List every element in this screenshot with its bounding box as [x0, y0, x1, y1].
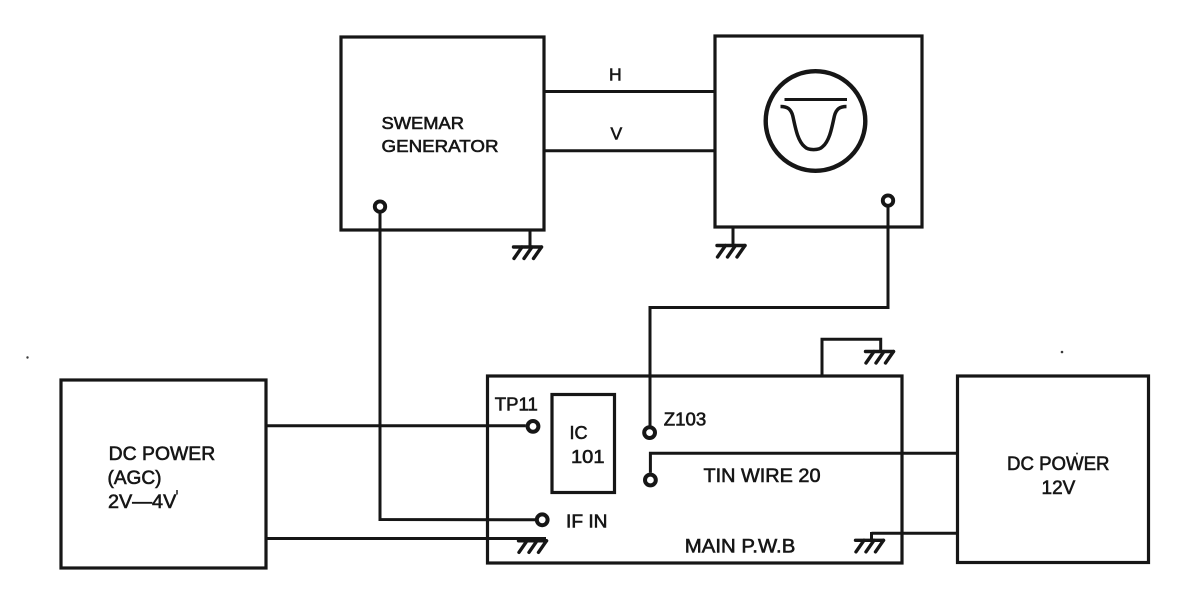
wire AGC to ground in MAIN PWB	[266, 537, 546, 540]
svg-text:(AGC): (AGC)	[108, 468, 162, 489]
terminal on SWEMAR GENERATOR	[375, 201, 385, 230]
ground under oscilloscope	[717, 227, 745, 257]
oscilloscope screen circle	[766, 71, 866, 171]
ground symbol bottom right of MAIN PWB	[856, 540, 884, 552]
box: SWEMAR GENERATOR	[341, 37, 544, 230]
ground under SWEMAR GENERATOR	[514, 230, 542, 259]
label DC POWER 12V	[1007, 454, 1110, 499]
box: DC POWER 12V	[958, 376, 1149, 563]
box: oscilloscope	[715, 36, 922, 227]
wire from oscilloscope terminal to Z103	[650, 227, 888, 426]
node TP11	[528, 421, 539, 432]
box: DC POWER (AGC)	[61, 380, 266, 568]
ground bracket on top of MAIN PWB	[822, 339, 881, 375]
svg-text:H: H	[609, 65, 622, 85]
svg-text:TIN WIRE 20: TIN WIRE 20	[704, 466, 821, 487]
label SWEMAR GENERATOR	[382, 113, 499, 156]
terminal on oscilloscope	[883, 195, 893, 227]
svg-text:Z103: Z103	[664, 409, 707, 429]
node IF IN	[537, 514, 548, 525]
svg-text:2V—4V: 2V—4V	[108, 492, 177, 513]
svg-text:TP11: TP11	[495, 394, 538, 414]
svg-text:IC: IC	[570, 423, 588, 443]
svg-text:SWEMAR: SWEMAR	[382, 113, 465, 133]
label IC 101	[570, 423, 605, 467]
node Z103	[644, 427, 655, 438]
wire from SWEMAR terminal to IF IN	[380, 230, 535, 520]
svg-text:101: 101	[571, 447, 605, 467]
svg-text:DC POWER: DC POWER	[1007, 454, 1110, 475]
IC 101 box	[552, 395, 615, 493]
oscilloscope baseline trace	[785, 98, 848, 101]
node TIN WIRE 20 terminal	[645, 475, 656, 486]
svg-text:DC POWER: DC POWER	[109, 444, 216, 465]
label DC POWER (AGC) 2V-4V	[108, 444, 216, 513]
ground wire from DC POWER 12V into MAIN PWB	[872, 532, 958, 540]
wire TIN WIRE 20 to DC POWER 12V	[650, 453, 957, 473]
svg-text:IF IN: IF IN	[566, 511, 608, 531]
wire V	[544, 149, 715, 152]
wire H	[544, 90, 715, 93]
svg-text:V: V	[611, 123, 623, 143]
wire AGC to TP11	[266, 424, 526, 427]
box: MAIN P.W.B	[488, 376, 903, 563]
ground at end of AGC wire	[519, 541, 547, 553]
svg-text:GENERATOR: GENERATOR	[382, 136, 499, 156]
svg-text:MAIN P.W.B: MAIN P.W.B	[685, 536, 796, 557]
ground symbol top right of MAIN PWB	[866, 352, 894, 364]
svg-text:12V: 12V	[1042, 478, 1076, 499]
oscilloscope response curve	[781, 107, 847, 150]
